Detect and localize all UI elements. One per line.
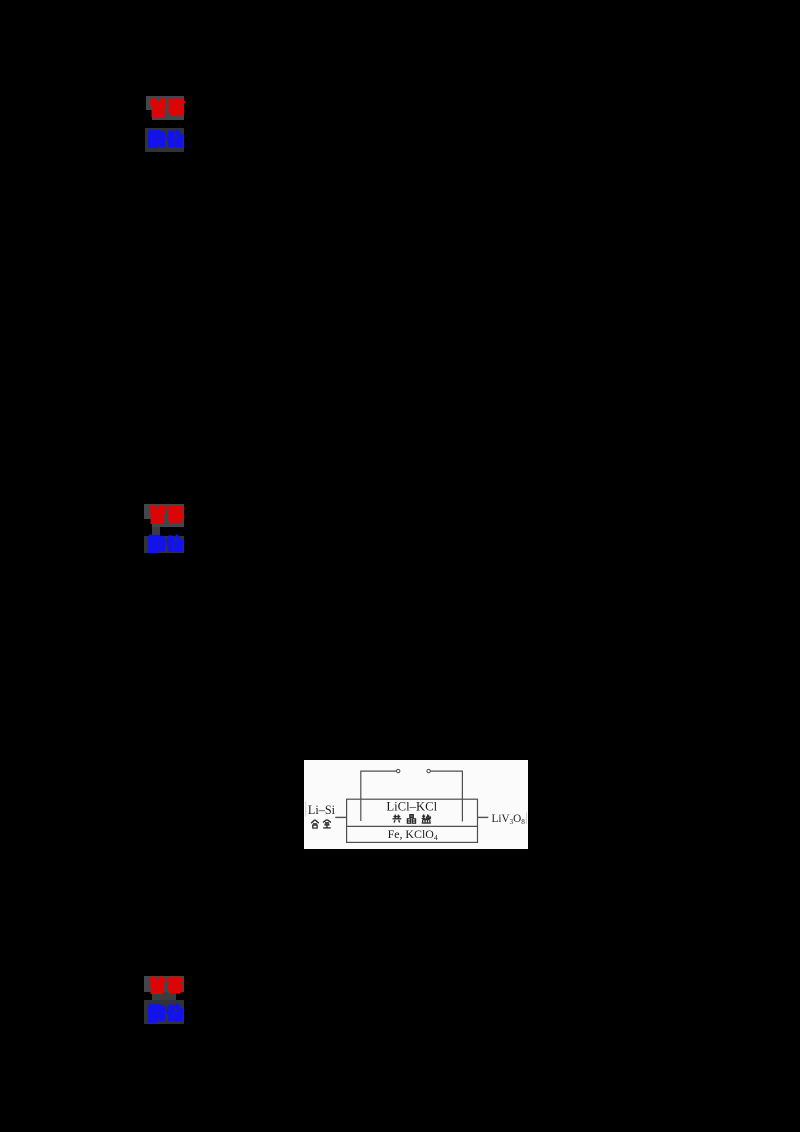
案 Q1 [167,97,185,117]
faint scan artifact right [525,812,527,824]
解 Q1 [148,129,166,149]
解 Q2 [148,534,166,554]
top wire right segment [430,770,462,772]
label 共晶盐 (eutectic salt) [392,814,430,823]
label 合金 (alloy) [311,819,331,828]
svg-text:LiCl–KCl: LiCl–KCl [386,799,437,813]
答 Q3 [148,976,166,994]
答 Q2 [148,504,166,524]
terminal circle right [427,769,430,772]
badge background Q2 analysis [144,536,184,553]
析 Q1 [166,129,184,149]
svg-text:LiV3O8: LiV3O8 [492,812,526,825]
faint scan artifact left [305,801,307,816]
terminal circle left [397,769,400,772]
案 Q3 [166,976,184,994]
badge background Q1 answer [146,96,185,120]
right electrode lead (vertical) [461,770,463,821]
析 Q3 [166,1003,184,1023]
badge background Q3 answer [144,976,184,993]
left lead wire to label [335,816,346,818]
案 Q2 [166,504,184,524]
svg-text:Fe, KClO4: Fe, KClO4 [388,827,438,842]
white figure background [304,760,528,849]
divider between electrolyte and heat layer [347,825,478,827]
析 Q2 [166,534,184,554]
解 Q3 [148,1003,166,1023]
badge background Q2 answer [144,504,184,528]
hidden glyph definitions (hand-drawn CJK strokes, viewBox 0 0 100 100) [0,0,14,14]
badge background Q1 analysis [145,128,185,153]
top wire left segment [361,770,397,772]
right lead wire to label [478,816,489,818]
svg-text:Li–Si: Li–Si [308,803,336,817]
答 Q1 [149,97,167,117]
badge background Q3 analysis [144,1000,184,1024]
left electrode lead (vertical) [360,770,362,820]
cell outer rectangle [347,799,478,842]
